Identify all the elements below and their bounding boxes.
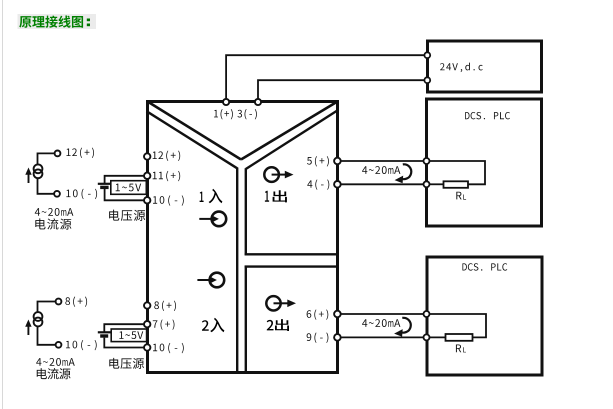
label source2 8(+) xyxy=(65,297,87,307)
label 2入 xyxy=(202,320,209,331)
output box1 left edge xyxy=(245,168,247,255)
label 10(-) lower xyxy=(153,343,184,353)
battery1 long plate xyxy=(98,183,111,185)
label DCS. PLC box1 xyxy=(465,112,510,119)
output box1 bottom edge xyxy=(245,253,339,255)
battery2 short plate xyxy=(100,334,108,337)
wire source1 top xyxy=(38,153,55,164)
terminal source2 top xyxy=(56,299,62,305)
loop arrow out1 xyxy=(395,164,412,183)
faint page left border xyxy=(2,0,3,409)
battery2 long plate xyxy=(98,331,112,333)
current source 1 symbol xyxy=(34,164,43,178)
wire source2 top xyxy=(38,302,56,313)
load loop wire box2 xyxy=(429,314,486,337)
terminal 5(+) xyxy=(334,158,341,165)
terminal on 24V box upper xyxy=(424,52,430,58)
label 2出 xyxy=(267,320,274,331)
terminal 6(+) xyxy=(334,311,341,318)
label 1~5V box1 xyxy=(116,184,141,192)
label RL1 xyxy=(456,192,461,200)
label 4~20mA out2 xyxy=(362,319,400,327)
label DCS. PLC box2 xyxy=(462,263,507,270)
label 10(-) upper xyxy=(153,195,184,205)
output box2 left edge xyxy=(245,266,247,373)
terminal DCS1 lower xyxy=(424,181,430,187)
divider left vertical line xyxy=(236,168,238,373)
wire 5(+) to DCS xyxy=(341,160,424,162)
label 11(+) xyxy=(153,171,181,181)
1~5V box1 xyxy=(111,181,147,195)
wire battery2 top xyxy=(104,324,144,331)
24V d.c power supply box xyxy=(428,41,542,92)
label 4~20mA source2 xyxy=(36,358,75,366)
isolator block outline xyxy=(148,102,338,373)
label 电压源 source2 xyxy=(109,358,144,369)
load resistor RL1 xyxy=(444,181,469,188)
label 12(+) xyxy=(153,151,181,161)
label 8(+) xyxy=(154,301,176,311)
label source1 12(+) xyxy=(66,148,94,158)
load loop wire box1 xyxy=(429,161,485,184)
label 6(+) xyxy=(307,309,329,319)
wire 4(-) to DCS xyxy=(341,183,424,185)
load resistor RL2 xyxy=(446,334,473,341)
title colon xyxy=(87,19,90,22)
output icon 2 arrow xyxy=(274,300,297,308)
title background xyxy=(18,14,97,29)
terminal 12(+) xyxy=(144,153,150,159)
input icon 2 circle xyxy=(210,273,225,288)
label 4~20mA source1 xyxy=(35,208,74,216)
terminal DCS2 lower xyxy=(424,334,430,340)
input icon 1 circle xyxy=(212,212,227,227)
label 1出 xyxy=(265,191,269,202)
DCS.PLC box 2 xyxy=(427,257,542,375)
output box2 top edge xyxy=(245,265,339,267)
wire terminal 3(-) to 24V supply xyxy=(258,80,425,101)
wire source1 bottom xyxy=(38,178,55,194)
label 3(-) xyxy=(237,109,256,119)
terminal source1 bottom xyxy=(54,191,60,197)
label source1 10(-) xyxy=(66,189,97,199)
label RL2 xyxy=(456,345,461,353)
1~5V box2 xyxy=(111,329,146,342)
load lead wire box1 xyxy=(429,183,444,185)
terminal 7(+) xyxy=(144,321,150,327)
wire terminal 1(+) to 24V supply xyxy=(226,55,424,101)
up arrow source2 xyxy=(25,320,31,336)
label 9(-) xyxy=(307,333,329,343)
label 24V,d.c xyxy=(440,63,483,73)
terminal DCS2 upper xyxy=(424,311,430,317)
terminal on 24V box lower xyxy=(424,77,430,83)
output icon 1 arrow xyxy=(272,171,294,179)
terminal 10(-) upper xyxy=(144,197,150,203)
current source 2 symbol xyxy=(34,312,43,326)
label 电流源 source1 xyxy=(35,218,71,229)
wire source2 bottom xyxy=(38,326,56,345)
up arrow source1 xyxy=(25,168,31,184)
label 1(+) xyxy=(214,109,233,119)
input icon 2 arrow xyxy=(197,276,217,284)
output icon 1 circle xyxy=(264,167,279,182)
DCS.PLC box 1 xyxy=(427,99,542,226)
label 1入 xyxy=(200,192,204,202)
wire 9(-) to DCS xyxy=(341,336,424,338)
terminal 11(+) xyxy=(144,173,150,179)
wire battery1 bottom xyxy=(105,189,144,201)
wire 6(+) to DCS xyxy=(341,313,424,315)
terminal 8(+) xyxy=(144,302,150,308)
input icon 1 arrow xyxy=(199,215,219,223)
label source2 10(-) xyxy=(66,340,97,350)
divider upper-left diagonal xyxy=(148,102,242,160)
terminal 4(-) xyxy=(334,181,341,188)
divider lower-left diagonal xyxy=(147,111,238,168)
terminal 9(-) xyxy=(334,334,341,341)
terminal 3(-) xyxy=(255,99,261,105)
label 5(+) xyxy=(307,156,329,166)
wire battery2 bottom xyxy=(104,338,144,348)
label 电压源 source1 xyxy=(109,210,145,221)
terminal 10(-) lower xyxy=(144,344,150,350)
label 4(-) xyxy=(307,179,329,189)
output icon 2 circle xyxy=(266,296,280,310)
battery1 short plate xyxy=(100,186,108,189)
wire battery1 top xyxy=(105,176,144,183)
divider lower-right diagonal xyxy=(246,110,339,169)
divider upper-right diagonal xyxy=(241,102,338,160)
label 7(+) xyxy=(153,319,175,329)
load lead wire box2 xyxy=(429,336,446,338)
terminal 1(+) xyxy=(223,99,229,105)
label 电流源 source2 xyxy=(37,368,71,379)
title text 原理接线图 xyxy=(19,16,83,28)
terminal source2 bottom xyxy=(56,342,62,348)
terminal source1 top xyxy=(55,151,61,157)
terminal DCS1 upper xyxy=(424,158,430,164)
label 1~5V box2 xyxy=(119,331,143,339)
label 4~20mA out1 xyxy=(362,166,400,174)
loop arrow out2 xyxy=(394,318,411,337)
